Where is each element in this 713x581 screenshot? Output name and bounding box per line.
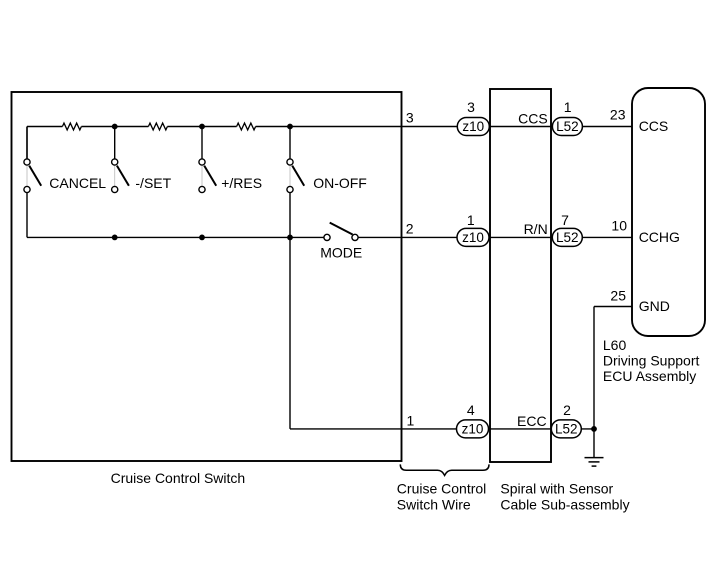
switch SET [112,127,129,193]
connector L52 pin 2 [551,420,581,438]
brace cruise control switch wire [400,464,489,475]
svg-text:+/RES: +/RES [221,175,262,191]
svg-text:L52: L52 [555,422,578,437]
svg-text:25: 25 [610,288,626,304]
spiral cable box [490,89,551,462]
svg-text:L60: L60 [603,337,627,353]
wire row1 seg c [167,126,236,128]
svg-text:R/N: R/N [524,221,548,237]
svg-text:Spiral with Sensor: Spiral with Sensor [500,481,613,497]
svg-text:z10: z10 [462,422,484,437]
ground [585,458,604,467]
svg-text:ECC: ECC [517,413,547,429]
svg-text:Driving Support: Driving Support [603,353,700,369]
switch ON-OFF [287,127,304,193]
wire row1 seg a [27,126,62,128]
resistor R2 [148,123,167,130]
svg-text:MODE: MODE [320,245,362,261]
svg-text:7: 7 [561,212,569,228]
node bottom rail junction 1 [112,235,118,241]
connector z10 pin 4 [457,420,489,438]
svg-text:CANCEL: CANCEL [49,175,106,191]
switch RES [199,127,216,193]
ECU box L60 [632,88,705,336]
wire col4 lower long [289,193,291,429]
svg-text:1: 1 [564,99,572,115]
svg-text:10: 10 [611,218,627,234]
svg-text:Cruise Control Switch: Cruise Control Switch [111,470,246,486]
switch CANCEL [24,127,41,193]
wire row2 left rail [27,236,324,238]
connector z10 pin 1 [457,228,489,246]
wire ground vertical [593,307,595,458]
node top rail junction 3 [287,124,293,130]
connector z10 pin 3 [457,118,489,136]
svg-text:L52: L52 [556,119,579,134]
svg-text:GND: GND [639,298,670,314]
wire col1 lower [26,193,28,238]
wire row3 ECC [290,428,594,430]
svg-text:CCS: CCS [639,118,669,134]
svg-text:3: 3 [406,110,414,126]
svg-text:z10: z10 [462,119,484,134]
connector L52 pin 7 [552,228,582,246]
svg-text:Switch Wire: Switch Wire [397,497,471,513]
resistor R1 [62,123,81,130]
cruise control switch box [12,92,402,461]
svg-text:z10: z10 [462,230,484,245]
wire GND pin [594,306,632,308]
svg-text:Cable Sub-assembly: Cable Sub-assembly [500,497,629,513]
node top rail junction 1 [112,124,118,130]
svg-text:ECU Assembly: ECU Assembly [603,368,696,384]
resistor R3 [237,123,256,130]
svg-text:Cruise Control: Cruise Control [397,481,486,497]
svg-text:3: 3 [467,99,475,115]
wire row2 right R/N [358,236,632,238]
svg-text:-/SET: -/SET [135,175,171,191]
svg-text:2: 2 [563,402,571,418]
svg-text:4: 4 [467,402,475,418]
wire row1 seg d CCS [256,126,632,128]
node bottom rail junction 2 [199,235,205,241]
switch MODE [324,223,358,241]
connector L52 pin 1 [552,118,582,136]
svg-text:23: 23 [610,107,626,123]
svg-text:2: 2 [406,221,414,237]
svg-text:1: 1 [407,412,415,428]
svg-text:1: 1 [467,212,475,228]
node bottom rail junction 3 [287,235,293,241]
svg-text:L52: L52 [556,230,579,245]
node top rail junction 2 [199,124,205,130]
svg-text:CCS: CCS [518,110,548,126]
svg-text:CCHG: CCHG [639,229,680,245]
svg-text:ON-OFF: ON-OFF [313,175,367,191]
node ground junction [591,426,597,432]
wire row1 seg b [81,126,148,128]
wire col1 upper [26,127,28,159]
